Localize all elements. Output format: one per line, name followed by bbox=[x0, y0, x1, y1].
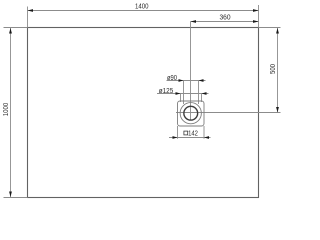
svg-text:1400: 1400 bbox=[135, 3, 149, 10]
svg-text:500: 500 bbox=[270, 64, 278, 74]
svg-text:ø125: ø125 bbox=[159, 88, 174, 95]
svg-text:142: 142 bbox=[188, 130, 198, 138]
svg-text:ø90: ø90 bbox=[167, 75, 177, 83]
svg-text:360: 360 bbox=[219, 15, 230, 22]
svg-text:1000: 1000 bbox=[3, 102, 10, 116]
